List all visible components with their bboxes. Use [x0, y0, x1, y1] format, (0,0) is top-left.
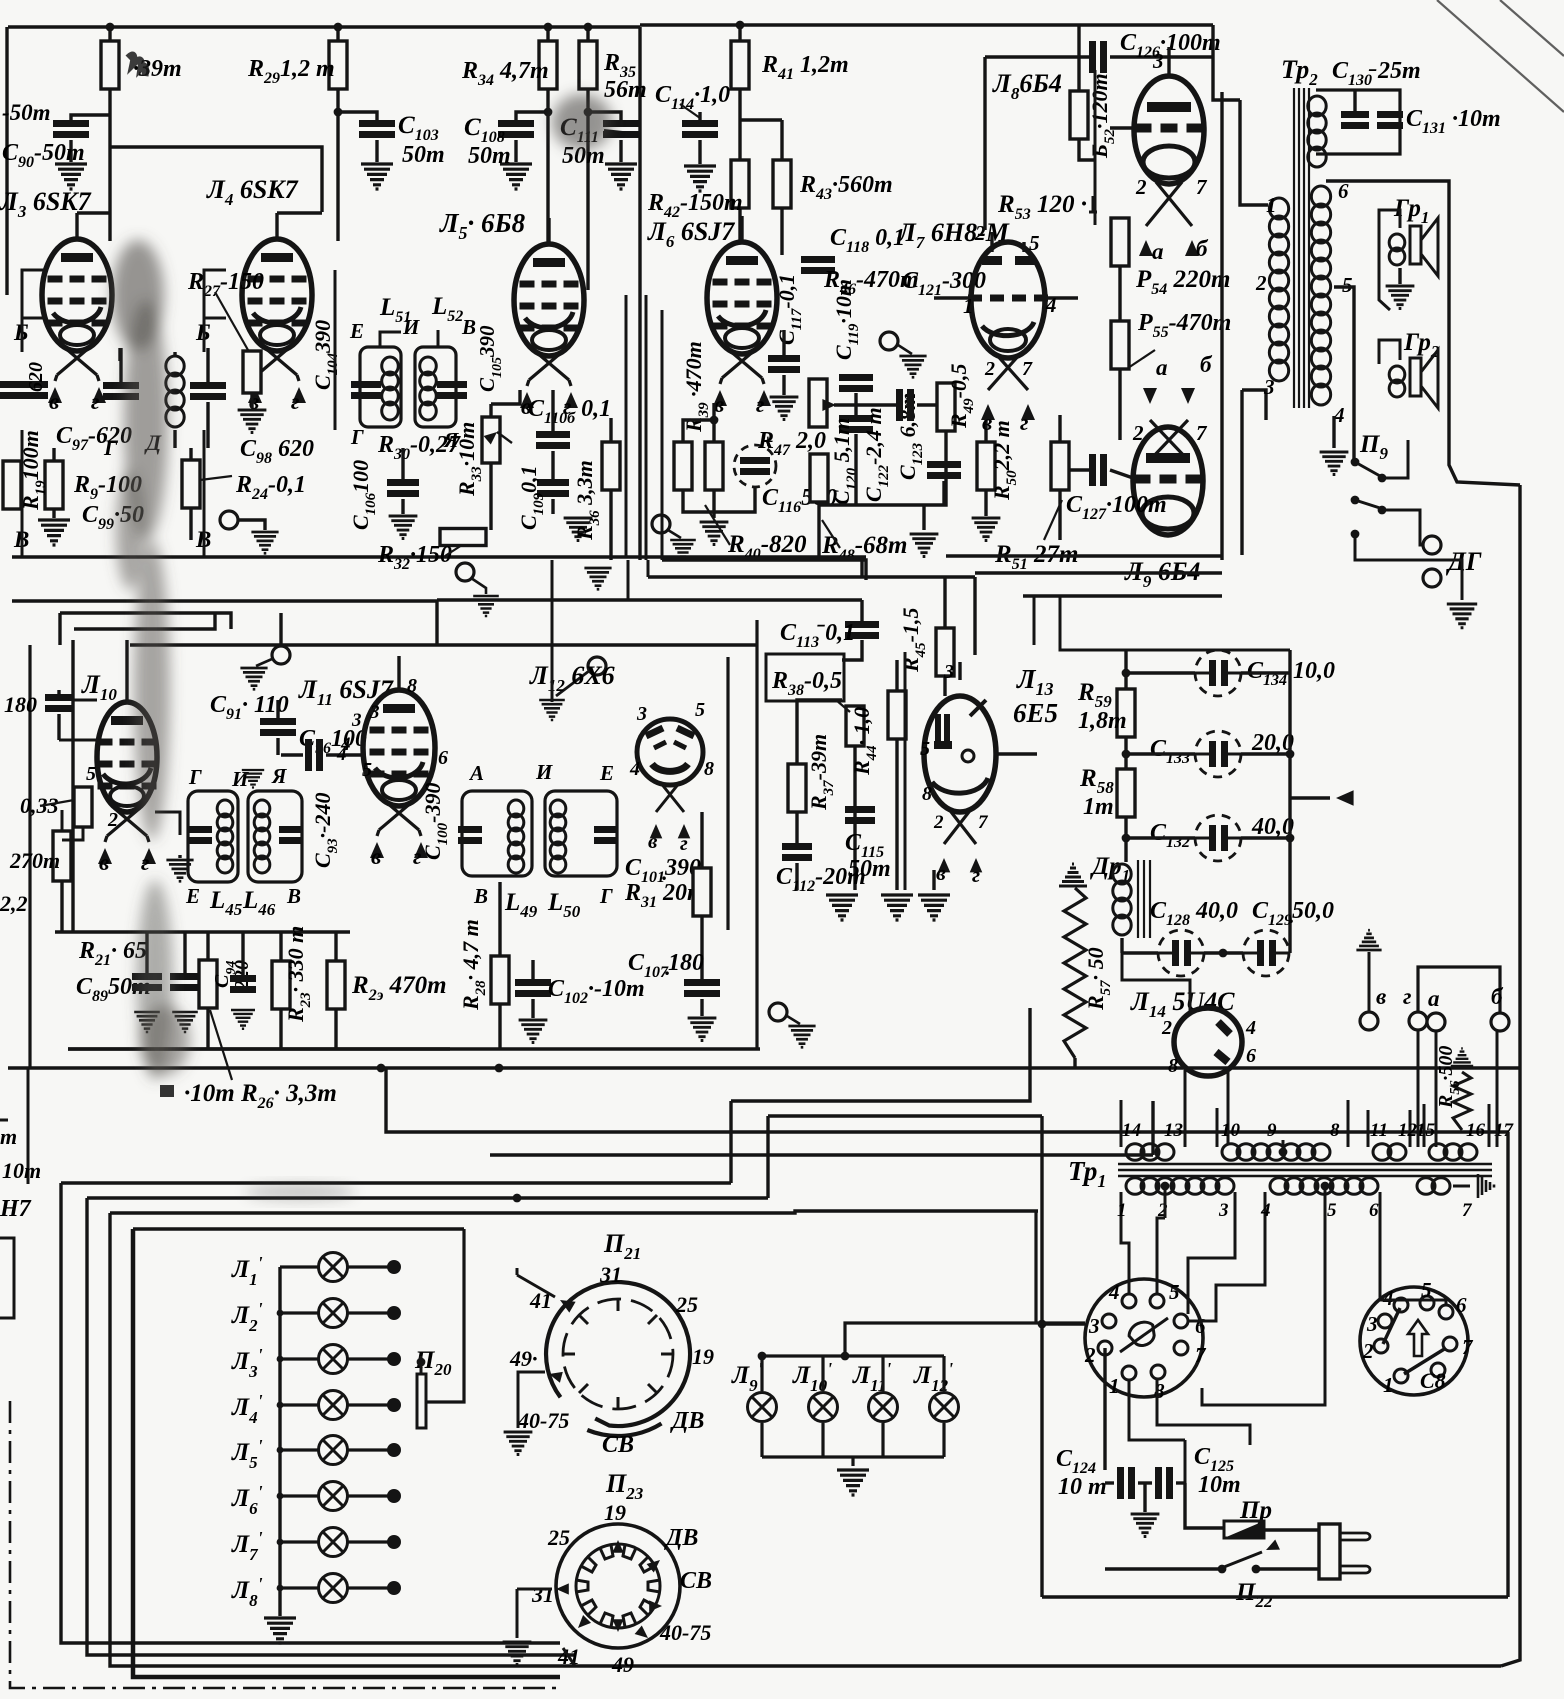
- svg-text:620: 620: [25, 362, 47, 392]
- wire: [1126, 752, 1195, 755]
- svg-text:г: г: [1020, 410, 1029, 435]
- wire L51 top: [380, 332, 401, 347]
- svg-text:б: б: [1196, 236, 1209, 261]
- label И: [231, 767, 249, 791]
- junction: [1219, 949, 1228, 958]
- resistor R48: [810, 454, 828, 502]
- svg-text:4: 4: [1382, 1286, 1394, 1310]
- svg-text:9: 9: [1267, 1120, 1277, 1141]
- capacitor C112: [782, 843, 812, 850]
- wire grid box 2: [204, 318, 226, 352]
- pin 3: [1263, 375, 1275, 399]
- svg-text:ДВ: ДВ: [664, 1525, 698, 1551]
- svg-text:Л4 6SK7: Л4 6SK7: [206, 175, 299, 209]
- capacitor C110a: [437, 381, 467, 388]
- pin 2: [933, 812, 944, 833]
- label Г: [599, 884, 613, 908]
- pin 4 label: [1045, 293, 1057, 317]
- wire AF riser: [1033, 596, 1036, 645]
- ground: [918, 895, 950, 920]
- label 31: [599, 1262, 622, 1287]
- lamp Л'2: [319, 1299, 348, 1328]
- wire to C103: [338, 112, 377, 122]
- wire bus below osc: [68, 1047, 450, 1050]
- svg-text:C131 ·10т: C131 ·10т: [1406, 106, 1501, 137]
- socket pin 2: [1098, 1341, 1112, 1355]
- svg-text:R32·150: R32·150: [377, 542, 452, 573]
- wire: [1380, 1226, 1446, 1305]
- junction: [584, 108, 593, 117]
- wire pointer: [1044, 500, 1062, 540]
- ground: [172, 1012, 198, 1032]
- wire Л10 cathode: [155, 812, 180, 835]
- label б: [1491, 984, 1504, 1009]
- svg-text:C122-2,4 т: C122-2,4 т: [861, 407, 892, 502]
- wire to Тр2 pin1: [1240, 100, 1268, 205]
- pin 6: [1369, 1200, 1379, 1221]
- tube Л10 6А8: [97, 702, 157, 812]
- label R19 100т: [18, 430, 49, 511]
- ground: [826, 895, 858, 920]
- socket pin 8: [1151, 1365, 1165, 1379]
- pin 3 label: [1152, 49, 1164, 73]
- junction: [277, 1493, 284, 1500]
- svg-text:7: 7: [1196, 175, 1208, 199]
- terminal: [880, 332, 898, 350]
- wire bus step: [12, 601, 437, 645]
- pin 4: [1260, 1200, 1271, 1221]
- svg-text:·10т R26· 3,3т: ·10т R26· 3,3т: [184, 1080, 337, 1112]
- svg-text:1т: 1т: [1083, 794, 1114, 820]
- fuse Пр: [1224, 1521, 1264, 1538]
- stub label 10т: [2, 1158, 41, 1183]
- wire: [276, 700, 279, 718]
- wire: [57, 690, 60, 694]
- vertical label R39-470т: [681, 341, 712, 433]
- Тр1 winding 10-9-8: [1216, 1108, 1219, 1147]
- svg-text:50т: 50т: [848, 856, 891, 882]
- resistor R20: [74, 787, 92, 827]
- wire to C111: [588, 112, 621, 122]
- wire heater bus 1: [61, 1181, 731, 1184]
- svg-text:В: В: [473, 884, 488, 908]
- svg-text:г: г: [1403, 984, 1412, 1009]
- svg-text:г: г: [680, 831, 688, 855]
- wire: [795, 812, 798, 845]
- svg-text:2: 2: [933, 812, 944, 833]
- svg-text:C118 0,1: C118 0,1: [830, 225, 905, 256]
- capacitor C105: [351, 381, 381, 388]
- svg-text:в: в: [648, 829, 658, 853]
- terminal Л'7: [387, 1535, 401, 1549]
- junction: [736, 21, 745, 30]
- svg-text:г: г: [756, 392, 765, 417]
- ground: [1386, 286, 1415, 309]
- label г: [680, 831, 688, 855]
- svg-text:Л6': Л6': [231, 1482, 263, 1518]
- wire: [1124, 650, 1127, 689]
- arrow R33 wiper: [484, 428, 501, 445]
- resistor R44: [888, 691, 906, 739]
- label 40-75: [517, 1408, 569, 1433]
- resistor R22: [199, 960, 217, 1008]
- electrolytic C133: [1195, 731, 1241, 777]
- wire: [1241, 836, 1290, 839]
- wire: [795, 863, 798, 890]
- hollow arrow: [1408, 1320, 1428, 1356]
- wire: [348, 1357, 388, 1360]
- wire: [586, 89, 589, 290]
- capacitor C102: [515, 979, 551, 986]
- wire: [1120, 938, 1123, 953]
- wire: [1184, 1440, 1187, 1490]
- pin 13: [1164, 1120, 1183, 1141]
- wire to lamp Л'4: [280, 1403, 318, 1406]
- socket pin 7: [1174, 1341, 1188, 1355]
- switch П22: [1218, 1565, 1227, 1574]
- wire pointer: [40, 800, 74, 806]
- label 0,33: [20, 793, 59, 818]
- wire volume bus: [904, 652, 907, 890]
- junction: [513, 1194, 522, 1203]
- wire: [1398, 268, 1401, 284]
- IF transformer box L49: [462, 791, 532, 876]
- svg-text:4: 4: [629, 758, 640, 780]
- svg-text:в: в: [371, 844, 381, 869]
- lamp Л'5: [319, 1436, 348, 1465]
- ground: [539, 700, 565, 720]
- speaker Гр2: [1389, 366, 1405, 397]
- wire: [119, 348, 122, 382]
- svg-text:2: 2: [1362, 1339, 1374, 1363]
- spare socket pin 7: [1443, 1337, 1457, 1351]
- svg-text:R49-0,5: R49-0,5: [946, 363, 977, 429]
- ground: [361, 164, 393, 189]
- IF transformer L51 box: [360, 347, 401, 427]
- label Е: [599, 761, 614, 785]
- wire heater bus 2: [87, 1196, 768, 1199]
- coil L51: [382, 357, 399, 420]
- wire: [619, 140, 622, 162]
- wire speaker common return: [1501, 485, 1520, 1666]
- svg-text:Н7: Н7: [0, 1196, 32, 1222]
- svg-text:5: 5: [1421, 1278, 1432, 1302]
- wire pin4: [1332, 416, 1335, 448]
- wire L52 top: [437, 330, 440, 347]
- svg-text:R53 120 ·: R53 120 ·: [997, 191, 1087, 223]
- wire г down: [1417, 1030, 1420, 1147]
- ground П23: [503, 1642, 532, 1665]
- wire border down c: [663, 558, 666, 560]
- wire fuse to plug: [1264, 1528, 1319, 1531]
- svg-text:49: 49: [611, 1652, 634, 1677]
- socket pin 3: [1102, 1314, 1116, 1328]
- tube Л4 6SK7 cathode/heater legs: [257, 347, 297, 375]
- svg-text:Л3': Л3': [231, 1345, 263, 1381]
- svg-text:R27-150: R27-150: [187, 269, 264, 300]
- wire bus below IF: [12, 555, 866, 558]
- wire: [922, 505, 925, 530]
- svg-text:6Е5: 6Е5: [1013, 698, 1058, 728]
- pin 16: [1466, 1120, 1486, 1141]
- capacitor C97: [103, 382, 139, 389]
- svg-text:1: 1: [1117, 1200, 1127, 1221]
- capacitor C117: [768, 355, 800, 362]
- svg-text:Л10': Л10': [792, 1359, 832, 1395]
- svg-text:3: 3: [1218, 1200, 1229, 1221]
- svg-text:0,33: 0,33: [20, 793, 59, 818]
- junction: [277, 1447, 284, 1454]
- resistor R8: [53, 831, 71, 881]
- junction: [277, 1539, 284, 1546]
- svg-text:10т: 10т: [2, 1158, 41, 1183]
- wire grid return: [491, 390, 520, 404]
- svg-text:270т: 270т: [9, 848, 60, 873]
- wire: [1122, 951, 1158, 954]
- svg-text:16: 16: [1466, 1120, 1486, 1141]
- wire: [1077, 25, 1080, 91]
- vertical label C120 5,1т: [829, 418, 860, 505]
- junction: [106, 23, 115, 32]
- tube Л6 6SJ7: [707, 242, 777, 354]
- scratch top right: [1437, 0, 1564, 112]
- lamp box Л'9-Л'12: [762, 1354, 944, 1357]
- resistor R28: [101, 41, 119, 89]
- pin 2 bottom: [984, 358, 995, 380]
- terminal г: [1409, 1012, 1427, 1030]
- wire loop 4: [133, 1229, 560, 1677]
- wire: [326, 753, 363, 756]
- wire: [917, 403, 938, 406]
- wire bus to power box: [110, 1211, 1038, 1213]
- wire: [586, 27, 589, 41]
- spare socket pin 8: [1431, 1363, 1445, 1377]
- wire: [984, 490, 987, 516]
- wire: [881, 1356, 884, 1391]
- socket key: [1126, 1318, 1159, 1350]
- switch arm: [1224, 1552, 1262, 1567]
- junction: [1286, 750, 1295, 759]
- svg-text:Г: Г: [350, 425, 364, 449]
- svg-text:Л12': Л12': [913, 1359, 953, 1395]
- wire: [60, 881, 63, 932]
- svg-text:4: 4: [1108, 1280, 1120, 1304]
- pin 1 label: [963, 294, 974, 318]
- svg-text:г: г: [91, 389, 100, 414]
- ground: [564, 518, 593, 541]
- electrolytic C132: [1195, 815, 1241, 861]
- wire П20 box: [425, 1229, 464, 1402]
- label Б grid node 2: [195, 320, 211, 345]
- vertical label C100-390: [420, 782, 451, 860]
- svg-text:C133: C133: [1150, 736, 1190, 767]
- terminal: [652, 515, 670, 533]
- wire heater return loop 1: [61, 1183, 560, 1643]
- wire screen feed: [110, 147, 322, 212]
- wire: [471, 578, 486, 594]
- label 270т: [9, 848, 60, 873]
- wire: [57, 714, 60, 740]
- wire Гр2 feed: [1379, 340, 1400, 364]
- capacitor C109: [537, 479, 569, 486]
- svg-text:П23: П23: [605, 1469, 644, 1503]
- coil L48 oscillator: [166, 356, 184, 427]
- wire: [348, 1494, 388, 1497]
- svg-text:П22: П22: [1235, 1579, 1273, 1611]
- svg-text:СВ: СВ: [680, 1568, 712, 1594]
- ground: [251, 532, 278, 553]
- tap pin 2: [1161, 1182, 1170, 1191]
- label а: [1156, 355, 1168, 380]
- svg-text:19: 19: [604, 1500, 626, 1525]
- wire: [881, 1423, 884, 1457]
- tube Л13 6Е5 magic eye: [924, 696, 996, 812]
- svg-text:C128 40,0: C128 40,0: [1150, 898, 1238, 929]
- svg-text:6: 6: [438, 747, 448, 769]
- wire: [206, 402, 209, 448]
- wire: [943, 577, 946, 628]
- wire: [336, 89, 339, 241]
- svg-text:1: 1: [1266, 193, 1277, 217]
- svg-text:а: а: [1156, 355, 1168, 380]
- vertical label C117-0,1: [774, 274, 805, 345]
- svg-text:Л4': Л4': [231, 1391, 263, 1427]
- wire: [932, 870, 935, 890]
- wire: [854, 434, 857, 505]
- coil L45: [217, 800, 233, 873]
- wire П9 to ДГ: [1382, 510, 1424, 545]
- svg-text:5: 5: [920, 738, 930, 760]
- svg-text:в: в: [936, 860, 946, 885]
- label 41: [557, 1644, 580, 1669]
- svg-text:Г: Г: [188, 765, 202, 789]
- left edge bracket: [0, 1238, 14, 1318]
- capacitor C111: [603, 120, 639, 127]
- tube Л12 6Х6: [637, 719, 703, 785]
- svg-text:И: И: [402, 315, 420, 339]
- wire: [1241, 752, 1290, 755]
- capacitor C120: [839, 415, 873, 422]
- wire: [1118, 266, 1121, 321]
- svg-text:R58: R58: [1079, 765, 1114, 797]
- svg-text:8: 8: [704, 758, 714, 780]
- wire: [1110, 470, 1133, 478]
- vertical label C105 390: [475, 325, 505, 392]
- wire: [73, 699, 97, 702]
- rotary switch П23: [556, 1524, 680, 1648]
- wire: [250, 393, 253, 408]
- svg-text:Л13: Л13: [1016, 664, 1054, 699]
- mid band bus A: [664, 558, 862, 577]
- pin 5 label: [86, 763, 96, 785]
- wire osc top 1: [60, 613, 231, 629]
- switch contact before Л7 grid: [1089, 196, 1097, 212]
- wire: [401, 499, 404, 514]
- wire grid left: [934, 296, 972, 299]
- label В: [461, 315, 476, 339]
- wire: [834, 403, 896, 406]
- resistor R57 zigzag: [1064, 888, 1086, 1058]
- svg-text:R59: R59: [1077, 679, 1112, 711]
- tap pin 5: [1321, 1182, 1330, 1191]
- resistor R31: [693, 868, 711, 916]
- capacitor C118: [801, 256, 835, 263]
- svg-text:5: 5: [1327, 1200, 1337, 1221]
- svg-text:R30-0,27: R30-0,27: [377, 432, 461, 463]
- junction: [495, 1064, 504, 1073]
- wire: [817, 502, 820, 560]
- ground: [1320, 452, 1349, 475]
- resistor R35: [579, 41, 597, 89]
- svg-text:11: 11: [1370, 1120, 1388, 1141]
- label б: [1196, 236, 1209, 261]
- svg-text:8: 8: [407, 675, 417, 697]
- ground: [670, 540, 696, 560]
- wire to Л9 anode: [1240, 390, 1243, 555]
- svg-text:10 т: 10 т: [1058, 1474, 1107, 1500]
- Тр1 winding 11-12: [1367, 1110, 1370, 1147]
- wire heater return loop 2: [87, 1198, 575, 1655]
- wire bottom bus: [662, 560, 866, 580]
- wire: [1110, 55, 1213, 58]
- tube Л8 legs: [1146, 182, 1192, 226]
- wire top HT bus left: [8, 25, 640, 28]
- spare socket pin 1: [1394, 1369, 1408, 1383]
- wire: [817, 502, 820, 505]
- label 50т: [2, 100, 51, 125]
- wire: [1157, 1379, 1250, 1445]
- svg-text:1: 1: [1109, 1374, 1120, 1398]
- svg-text:6: 6: [1195, 1314, 1206, 1338]
- svg-text:6: 6: [1246, 1045, 1256, 1067]
- junction: [544, 108, 553, 117]
- svg-text:13: 13: [1164, 1120, 1183, 1141]
- wire: [531, 960, 534, 979]
- tube Л4 6SK7: [242, 239, 312, 351]
- box around R38 label: [766, 654, 844, 701]
- svg-text:3: 3: [369, 702, 380, 723]
- lamp Л'8: [319, 1574, 348, 1603]
- Тр2 secondary winding 6-5-4: [1311, 186, 1330, 405]
- resistor R59: [1117, 689, 1135, 737]
- svg-text:7: 7: [1022, 358, 1033, 380]
- svg-text:3: 3: [943, 661, 954, 683]
- tube Л7 legs: [988, 354, 1028, 390]
- label в: [648, 829, 658, 853]
- pin 5 label: [362, 759, 372, 781]
- svg-text:Л11': Л11': [852, 1359, 891, 1395]
- terminal в: [1360, 1012, 1378, 1030]
- П23 arrows: [612, 1540, 623, 1553]
- wire to C90: [71, 115, 110, 123]
- terminal: [272, 646, 290, 664]
- wire pin3: [958, 662, 961, 680]
- terminal Л'5: [387, 1443, 401, 1457]
- resistor R19: [3, 461, 21, 509]
- svg-text:7: 7: [978, 812, 989, 833]
- speaker Гр1: [1389, 234, 1405, 265]
- wire: [1068, 468, 1089, 471]
- tube Л3 6SK7: [42, 239, 112, 351]
- wire grid box: [22, 318, 44, 352]
- wire: [62, 827, 83, 840]
- terminal Л'6: [387, 1489, 401, 1503]
- spare socket pin 3: [1378, 1314, 1392, 1328]
- resistor R34: [539, 41, 557, 89]
- svg-text:12: 12: [1398, 1120, 1418, 1141]
- svg-text:C113̄ 0,1: C113̄ 0,1: [780, 620, 855, 651]
- svg-text:1,8т: 1,8т: [1078, 708, 1127, 734]
